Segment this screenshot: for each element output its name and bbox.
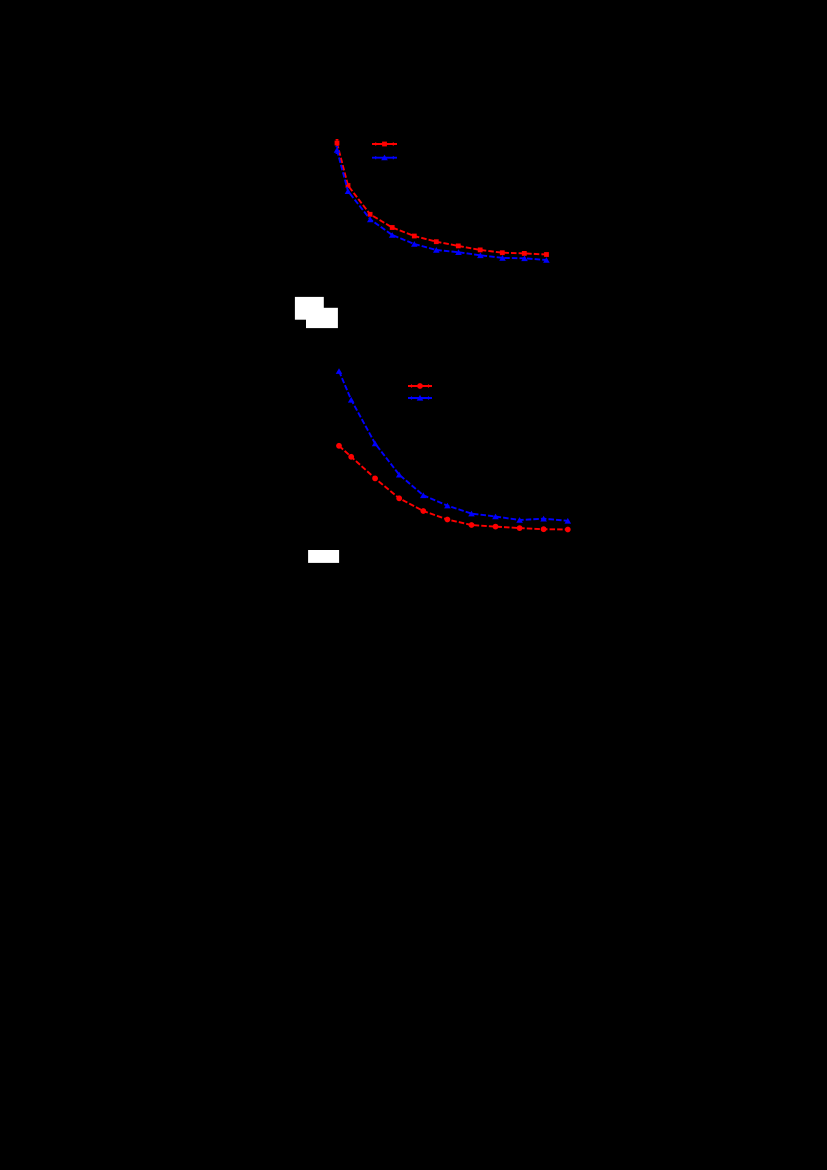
chart2 blue series line	[339, 371, 568, 521]
chart2 legend red entry	[408, 383, 432, 389]
chart1 blue errorbar p1	[336, 147, 339, 154]
chart1 blue triangle markers	[334, 147, 550, 263]
chart2 red series line	[339, 446, 568, 530]
white box B	[306, 308, 338, 328]
chart1 legend blue entry	[372, 155, 397, 161]
chart1 red errorbar p1	[336, 140, 339, 147]
chart2 red circle markers	[336, 443, 571, 532]
chart1 red series line	[337, 143, 547, 255]
white box C	[308, 550, 339, 563]
white box A	[295, 297, 324, 320]
chart1 blue series line	[337, 150, 546, 260]
chart1 red square markers	[335, 141, 549, 257]
chart2 blue triangle markers	[336, 368, 571, 523]
chart1 legend red entry	[372, 142, 397, 147]
chart2 legend blue entry	[408, 395, 432, 401]
